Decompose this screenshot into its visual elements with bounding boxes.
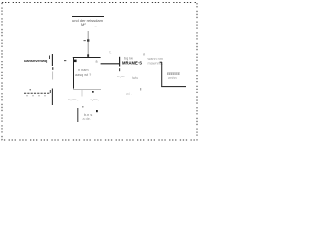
svg-text:a de.: a de.: [83, 117, 91, 121]
svg-text:--.---: --.---: [117, 73, 125, 78]
svg-text:-,----.: -,----.: [91, 97, 99, 101]
svg-text:lwlu: lwlu: [132, 76, 138, 80]
svg-text:M²: M²: [81, 22, 86, 27]
svg-text:MRAME·S: MRAME·S: [122, 61, 142, 66]
svg-text:wann nm: wann nm: [148, 57, 163, 61]
svg-text:uansnvenwq: uansnvenwq: [24, 58, 48, 63]
svg-text:t.: t.: [110, 51, 112, 55]
svg-text:aasq wt ?: aasq wt ?: [75, 73, 91, 77]
svg-text:.,: .,: [95, 24, 97, 28]
svg-text:--.---- .: --.---- .: [68, 97, 78, 101]
svg-text:n: n: [143, 53, 145, 57]
svg-text:n nam: n nam: [78, 68, 89, 72]
svg-text:wnhn: wnhn: [168, 76, 177, 80]
svg-text:w.l .: w.l .: [126, 92, 132, 96]
svg-text:und der reissdam: und der reissdam: [72, 18, 104, 23]
svg-text:a: a: [96, 60, 98, 64]
